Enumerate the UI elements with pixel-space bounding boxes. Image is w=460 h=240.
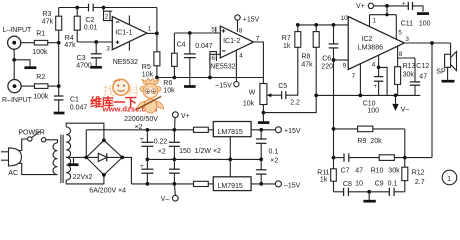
wire jack shield link xyxy=(13,49,15,79)
node R8 top xyxy=(314,23,318,27)
wire IC1-1 output xyxy=(147,32,157,34)
terminal -15V xyxy=(215,82,239,90)
AC plug P xyxy=(1,148,22,177)
svg-text:100: 100 xyxy=(367,108,379,115)
pin 3 label xyxy=(106,46,110,53)
node pin2/feedback xyxy=(102,6,106,10)
terminal V- mid xyxy=(161,184,179,203)
node C3 top xyxy=(94,40,98,44)
pin 10 label xyxy=(341,15,349,22)
wire secondary top to bridge xyxy=(66,123,104,140)
ground C11 xyxy=(417,12,429,15)
svg-text:C8: C8 xyxy=(343,181,352,188)
wire row A to row B xyxy=(404,129,406,158)
node R13 bottom xyxy=(394,94,398,98)
svg-text:1: 1 xyxy=(372,18,376,25)
svg-text:100k: 100k xyxy=(33,94,49,101)
svg-text:R4: R4 xyxy=(65,35,74,42)
pin 4 label xyxy=(239,53,243,60)
svg-text:150 1/2W ×2: 150 1/2W ×2 xyxy=(179,148,221,155)
svg-text:R11: R11 xyxy=(317,169,329,176)
ground speaker xyxy=(442,80,455,83)
svg-text:R7: R7 xyxy=(282,35,291,42)
node R8 bottom xyxy=(314,94,318,98)
svg-text:R10: R10 xyxy=(371,168,384,175)
resistor R12 2.7 xyxy=(402,158,425,192)
svg-text:3: 3 xyxy=(405,36,409,43)
ground C4 xyxy=(184,85,196,88)
wire +15V out xyxy=(251,129,275,131)
node output IC1-1 xyxy=(155,32,159,36)
capacitor 0.22 upper xyxy=(154,130,180,160)
resistor R11 1k xyxy=(317,158,336,192)
pin 9 label xyxy=(343,63,347,70)
svg-text:POWER: POWER xyxy=(18,130,44,137)
node pot bottom xyxy=(262,105,266,115)
wire node C bottom xyxy=(157,77,264,79)
wire switch to primary top xyxy=(46,140,58,143)
svg-text:10k: 10k xyxy=(243,101,255,108)
svg-text:1: 1 xyxy=(148,26,152,33)
ground C3 xyxy=(90,66,102,69)
wire pin8 stub xyxy=(237,20,239,32)
terminal V+ xyxy=(356,3,374,10)
POWER switch S xyxy=(18,130,45,143)
node cap col2 bottom xyxy=(173,182,177,186)
R-INPUT jack J2 xyxy=(2,80,33,105)
svg-text:C7: C7 xyxy=(341,167,350,174)
wire L-jack to R1 xyxy=(21,42,35,44)
wire pin4 stub xyxy=(235,50,237,81)
resistor R9 20k xyxy=(334,126,405,145)
terminal +15V xyxy=(235,15,260,24)
capacitor C10 100 xyxy=(363,67,384,114)
wire center tap xyxy=(66,156,86,158)
pin 3 label xyxy=(405,36,409,43)
capacitor 0.22 lower xyxy=(169,159,180,184)
svg-text:+: + xyxy=(402,1,406,8)
ground row C xyxy=(363,192,375,201)
resistor R3 47k xyxy=(42,8,62,43)
wire V+ rail top xyxy=(374,5,409,7)
svg-text:2.7: 2.7 xyxy=(415,179,425,186)
capacitor 0.1 lower xyxy=(256,159,267,184)
svg-text:R2: R2 xyxy=(36,74,45,81)
svg-text:R8: R8 xyxy=(301,53,310,60)
pin 6 label xyxy=(210,52,217,63)
svg-text:7: 7 xyxy=(352,73,356,80)
svg-text:6A/200V ×4: 6A/200V ×4 xyxy=(89,188,126,195)
svg-text:–15V: –15V xyxy=(215,82,232,89)
wire node A column xyxy=(58,43,60,86)
ground C1 xyxy=(54,112,65,115)
svg-text:V+: V+ xyxy=(356,3,365,10)
wire bridge minus to V- rail xyxy=(122,157,131,184)
pin 7 gnd label xyxy=(352,73,356,80)
resistor R4 47k xyxy=(64,8,80,50)
svg-text:9: 9 xyxy=(343,63,347,70)
node output xyxy=(430,41,434,45)
svg-text:LM7915: LM7915 xyxy=(218,183,243,190)
pin 5 label xyxy=(398,30,402,37)
svg-text:LM7815: LM7815 xyxy=(218,129,243,136)
wire pin4 stub IC2 xyxy=(377,55,387,95)
capacitor C7 47 xyxy=(334,153,380,174)
svg-text:R–INPUT: R–INPUT xyxy=(2,97,33,104)
svg-text:47: 47 xyxy=(355,167,363,174)
svg-text:+: + xyxy=(373,83,377,90)
svg-text:220: 220 xyxy=(321,64,333,71)
pin 4 label IC2 xyxy=(372,62,376,69)
label 150 1/2W x2 xyxy=(179,148,221,155)
svg-text:100: 100 xyxy=(419,21,431,28)
svg-text:1: 1 xyxy=(447,176,451,183)
svg-text:5: 5 xyxy=(398,30,402,37)
capacitor 0.1 upper xyxy=(256,130,278,165)
wire pin8 stub xyxy=(398,46,415,66)
capacitor C11 100 xyxy=(401,1,431,28)
svg-text:47k: 47k xyxy=(301,62,313,69)
wire C5 to R7 xyxy=(286,47,298,95)
node R4 top xyxy=(75,6,79,10)
svg-text:C6: C6 xyxy=(322,55,331,62)
svg-text:SP: SP xyxy=(436,69,446,76)
svg-text:3: 3 xyxy=(106,46,110,53)
ground pot xyxy=(258,113,270,123)
svg-text:1k: 1k xyxy=(320,176,328,183)
capacitor C9 0.1 xyxy=(369,180,405,196)
L-INPUT jack J1 xyxy=(3,27,33,49)
wire IC2 output xyxy=(404,42,450,44)
capacitor C6 220 xyxy=(321,25,338,71)
svg-text:C12: C12 xyxy=(416,63,429,70)
svg-text:5: 5 xyxy=(211,27,215,34)
node cap col2 mid xyxy=(173,158,177,162)
svg-text:C1: C1 xyxy=(70,97,79,104)
capacitor C1 0.047 xyxy=(54,86,88,112)
svg-text:C11: C11 xyxy=(401,21,413,28)
regulator LM7915 xyxy=(213,159,251,190)
resistor R8 47k xyxy=(301,25,319,96)
node R5 bottom xyxy=(155,76,159,80)
svg-text:R1: R1 xyxy=(36,31,45,38)
svg-text:+: + xyxy=(140,136,144,143)
svg-text:47k: 47k xyxy=(42,19,54,26)
wire V- rail xyxy=(131,183,193,185)
svg-text:10k: 10k xyxy=(142,72,154,79)
svg-text:V–: V– xyxy=(161,196,170,203)
wire V- rail of IC2 xyxy=(316,94,420,96)
capacitor C3 4700 xyxy=(76,42,101,70)
node V+ xyxy=(385,4,389,8)
watermark dzsc xyxy=(90,79,164,114)
svg-text:20k: 20k xyxy=(370,138,382,145)
svg-text:×2: ×2 xyxy=(135,124,143,131)
wire output riser to feedback xyxy=(431,43,433,158)
svg-text:0.047: 0.047 xyxy=(70,104,88,111)
svg-text:0.1: 0.1 xyxy=(388,180,398,187)
wire pot bottom return xyxy=(263,95,316,112)
node A xyxy=(57,41,61,45)
svg-text:100k: 100k xyxy=(32,49,48,56)
node row B left xyxy=(332,156,336,160)
svg-text:10: 10 xyxy=(341,15,349,22)
svg-text:22Vx2: 22Vx2 xyxy=(73,174,93,181)
svg-text:0.1: 0.1 xyxy=(269,149,279,156)
node row A left xyxy=(332,127,336,131)
wire feedback riser xyxy=(156,8,158,34)
wire pin9 xyxy=(334,59,349,61)
power-amp IC2 LM3886 xyxy=(348,17,404,70)
svg-text:R5: R5 xyxy=(142,64,151,71)
svg-text:LM3886: LM3886 xyxy=(358,44,383,51)
resistor R6 10k xyxy=(163,33,177,95)
wire secondary bottom to bridge xyxy=(66,175,104,184)
resistor 150 upper xyxy=(194,127,214,132)
op-amp IC1-1 NE5532 xyxy=(112,15,147,65)
node C6 top xyxy=(332,23,336,27)
svg-text:W: W xyxy=(249,90,256,97)
op-amp IC1-2 NE5532 xyxy=(210,26,253,71)
resistor R10 30k xyxy=(371,155,432,175)
svg-text:10k: 10k xyxy=(163,88,175,95)
svg-text:30k: 30k xyxy=(403,72,415,79)
wire C2 to feedback node xyxy=(93,7,157,9)
svg-text:NE5532: NE5532 xyxy=(210,64,235,71)
svg-text:4700: 4700 xyxy=(76,63,92,70)
svg-text:1k: 1k xyxy=(283,43,291,50)
wire node D top xyxy=(174,32,220,34)
pin 1 label xyxy=(148,26,152,33)
net arrow V- xyxy=(392,95,409,113)
svg-text:C4: C4 xyxy=(177,41,186,48)
svg-text:IC2: IC2 xyxy=(362,36,373,43)
wire pin1 pin5 supply xyxy=(370,6,397,39)
svg-text:+15V: +15V xyxy=(243,16,260,23)
svg-text:×2: ×2 xyxy=(270,158,278,165)
node pin7 xyxy=(359,94,363,98)
terminal V+ mid xyxy=(172,112,189,130)
node R7 top xyxy=(296,23,300,27)
pin 7 label xyxy=(256,36,260,43)
svg-text:10: 10 xyxy=(355,181,363,188)
svg-text:V–: V– xyxy=(401,106,410,113)
svg-text:8: 8 xyxy=(239,28,243,35)
resistor R5 10k xyxy=(142,33,160,78)
transformer core xyxy=(61,135,63,183)
svg-text:L–INPUT: L–INPUT xyxy=(3,27,33,34)
svg-text:R12: R12 xyxy=(412,170,425,177)
resistor R2 100k xyxy=(33,74,49,101)
svg-text:30k: 30k xyxy=(388,168,400,175)
node shield xyxy=(12,58,16,62)
resistor 150 lower xyxy=(194,181,214,186)
svg-text:+: + xyxy=(140,163,144,170)
svg-text:IC1-2: IC1-2 xyxy=(223,38,240,45)
capacitor 22000u upper xyxy=(140,130,153,160)
wire node B rail xyxy=(59,7,89,9)
svg-text:NE5532: NE5532 xyxy=(113,59,138,66)
svg-text:R3: R3 xyxy=(42,11,51,18)
svg-text:C5: C5 xyxy=(278,83,287,90)
bridge rectifier 6A/200V x4 xyxy=(84,138,126,194)
svg-text:AC: AC xyxy=(8,170,18,177)
wire mid ground rail xyxy=(147,158,261,160)
page number 1 xyxy=(442,170,457,185)
resistor R7 1k xyxy=(282,25,301,50)
svg-text:47: 47 xyxy=(419,73,427,80)
node row C ground xyxy=(367,190,371,194)
wire R4 to pin3 xyxy=(77,41,112,43)
node C1 top xyxy=(57,84,61,88)
ground center tap xyxy=(68,157,79,164)
wire -15V out xyxy=(251,183,275,185)
wire R1 to node A xyxy=(48,42,59,44)
pin 5 label xyxy=(211,27,216,34)
speaker SP xyxy=(436,43,456,80)
transformer T primary xyxy=(53,143,57,175)
svg-text:6: 6 xyxy=(211,55,215,62)
pin 1 label xyxy=(372,18,376,25)
svg-text:R9: R9 xyxy=(357,138,366,145)
wire bridge plus to V+ rail xyxy=(85,130,87,158)
terminal +15V out xyxy=(275,127,300,135)
svg-text:R13: R13 xyxy=(403,63,416,70)
label 22000/50V x2 xyxy=(124,116,158,131)
wire R2 to node A column xyxy=(48,85,59,87)
svg-text:C3: C3 xyxy=(77,55,86,62)
capacitor C12 47 xyxy=(410,58,429,95)
node C4 top xyxy=(188,31,192,35)
svg-text:0.047: 0.047 xyxy=(195,43,213,50)
svg-text:0.22: 0.22 xyxy=(154,139,168,146)
resistor R13 30k xyxy=(395,63,416,95)
node pin6 xyxy=(208,76,212,80)
node row B right xyxy=(403,156,407,160)
node cap col1 bottom xyxy=(146,182,150,186)
node cap col1 top xyxy=(146,128,150,132)
node 0.1 col top xyxy=(259,128,263,132)
transformer secondary 22Vx2 xyxy=(66,127,92,181)
svg-text:0.01: 0.01 xyxy=(84,24,98,31)
node pin9 xyxy=(332,58,336,62)
node 0.1 col bottom xyxy=(259,182,263,186)
wire pin7 stub xyxy=(359,64,361,96)
svg-text:2.2: 2.2 xyxy=(290,100,300,107)
svg-text:8: 8 xyxy=(399,51,403,58)
capacitor C8 10 xyxy=(334,181,370,196)
svg-text:2: 2 xyxy=(105,14,109,21)
pin 8 mute label xyxy=(399,51,403,58)
wire R-jack to R2 xyxy=(21,85,34,87)
regulator LM7815 xyxy=(213,122,251,162)
pin 8 label xyxy=(239,28,243,35)
wire pin6 stub xyxy=(210,54,220,77)
wire plug to switch xyxy=(19,139,28,151)
potentiometer W 10k xyxy=(243,84,272,108)
svg-text:22000/50V: 22000/50V xyxy=(124,116,158,123)
wire V+ rail xyxy=(86,129,193,131)
svg-text:4: 4 xyxy=(239,53,243,60)
node 0.1 col mid xyxy=(259,158,263,162)
wire IC1-2 output to pot xyxy=(254,42,264,84)
svg-text:×2: ×2 xyxy=(158,148,166,155)
svg-text:R6: R6 xyxy=(163,80,172,87)
svg-text:C2: C2 xyxy=(85,17,94,24)
svg-text:IC1-1: IC1-1 xyxy=(115,29,132,36)
wire feedback column xyxy=(333,48,335,158)
terminal -15V out xyxy=(275,181,300,189)
capacitor C2 0.01 xyxy=(84,4,98,32)
svg-text:V+: V+ xyxy=(181,113,190,120)
svg-text:47k: 47k xyxy=(64,42,76,49)
pin 2 label xyxy=(105,14,109,21)
node R6 bottom xyxy=(173,76,177,80)
node cap col1 mid xyxy=(146,158,150,162)
wire wiper to C5 xyxy=(271,94,281,96)
svg-text:4: 4 xyxy=(372,62,376,69)
capacitor C4 0.047 xyxy=(177,33,213,85)
capacitor 22000u lower xyxy=(140,159,153,184)
ground input shield xyxy=(14,60,36,68)
capacitor C5 2.2 xyxy=(278,83,300,107)
svg-text:C9: C9 xyxy=(375,180,384,187)
node cap col2 top xyxy=(173,128,177,132)
resistor R1 100k xyxy=(32,31,48,57)
svg-text:–15V: –15V xyxy=(284,182,301,189)
wire plug to primary bottom xyxy=(19,163,58,174)
svg-text:+15V: +15V xyxy=(284,128,301,135)
wire pin10 rail xyxy=(298,24,348,26)
wire pin2 stub xyxy=(104,8,113,21)
